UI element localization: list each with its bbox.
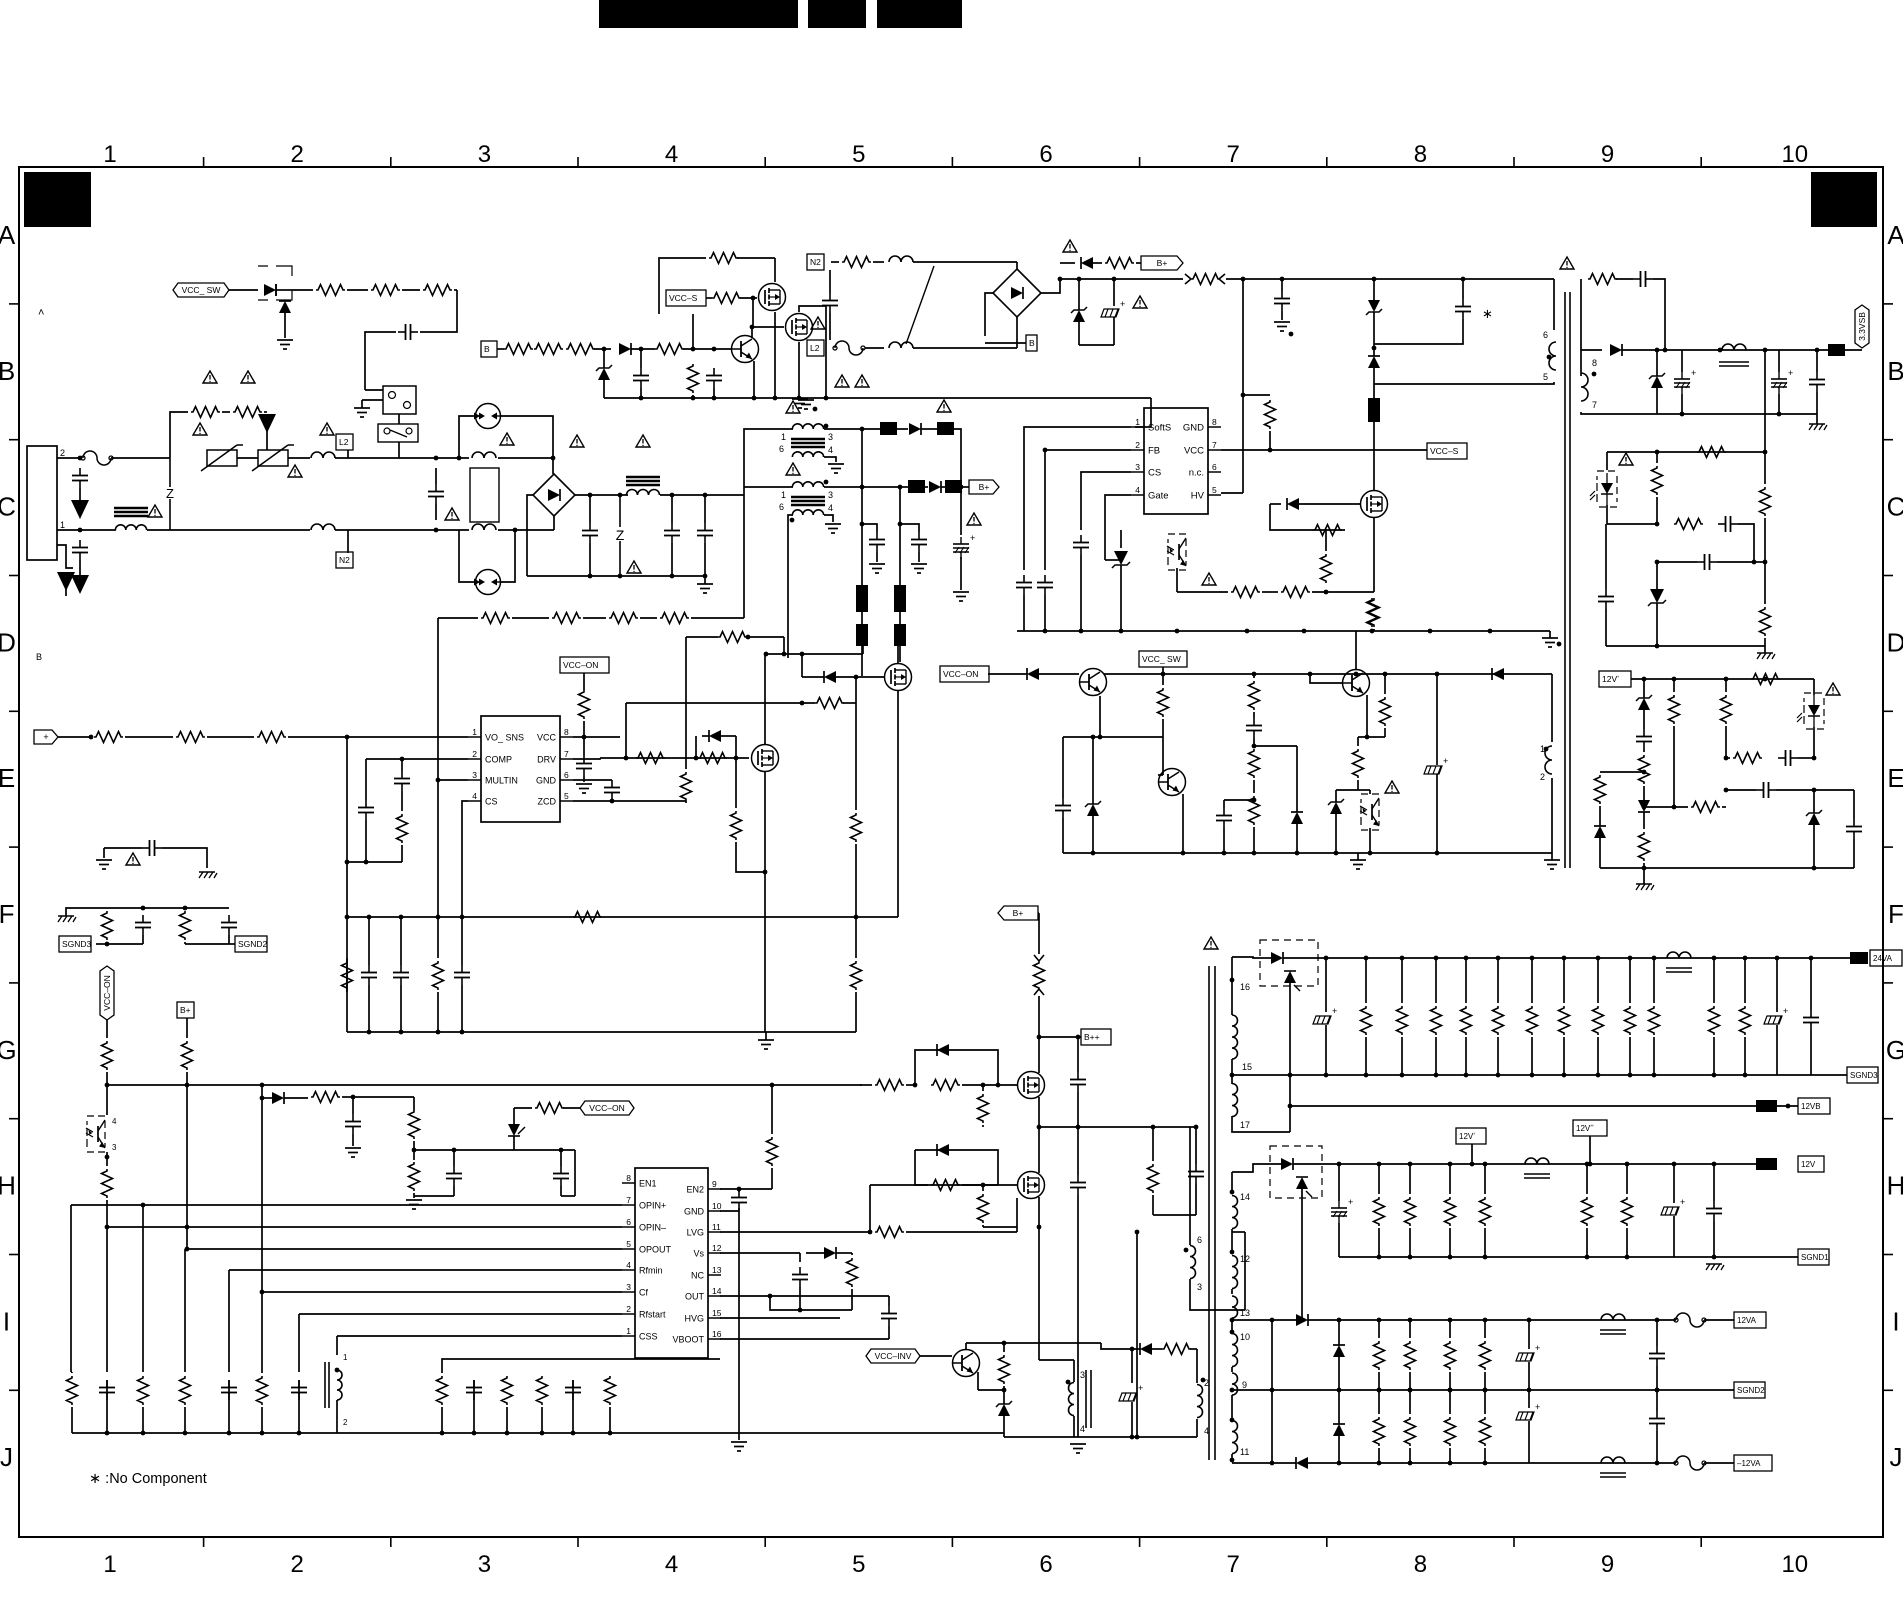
- winding lead: [1231, 1059, 1233, 1075]
- junction: [1241, 277, 1246, 282]
- wire: [799, 1287, 801, 1310]
- wire: [553, 516, 555, 530]
- svg-text:VO_ SNS: VO_ SNS: [485, 733, 524, 743]
- wire: [1373, 312, 1375, 356]
- junction: [399, 1030, 404, 1035]
- photocoupler LED: [1804, 693, 1824, 729]
- resistor: [176, 732, 205, 743]
- wire: [1401, 958, 1403, 1003]
- capacitor: [1073, 542, 1089, 544]
- svg-text:N2: N2: [339, 555, 350, 565]
- wire: [454, 289, 457, 291]
- wire: [1321, 1163, 1756, 1165]
- wire: [985, 342, 1026, 344]
- svg-text:A: A: [1887, 220, 1903, 250]
- junction: [790, 518, 795, 523]
- svg-text:1: 1: [103, 141, 116, 168]
- junction: [1642, 805, 1647, 810]
- junction: [1408, 1388, 1413, 1393]
- diode: [1333, 1424, 1345, 1436]
- junction: [460, 915, 465, 920]
- junction: [351, 1095, 356, 1100]
- svg-text:OPIN+: OPIN+: [639, 1201, 666, 1211]
- wire: [186, 1072, 188, 1249]
- redacted bar 3: [877, 0, 962, 28]
- svg-text:B: B: [36, 652, 42, 662]
- wire: [1162, 719, 1164, 737]
- wire: [1484, 1372, 1486, 1390]
- ferrite bead: [908, 480, 925, 493]
- wire: [1656, 1390, 1658, 1411]
- net label VCC-ON: [560, 657, 609, 673]
- wire: [1092, 737, 1094, 804]
- resistor: [847, 1258, 858, 1287]
- capacitor: [792, 1274, 808, 1276]
- wire: [1471, 1144, 1473, 1164]
- wire: [1308, 1462, 1676, 1464]
- capacitor: [1274, 298, 1290, 300]
- winding 9: [1232, 1373, 1238, 1395]
- resistor: [655, 344, 684, 355]
- ferrite bead: [856, 624, 868, 646]
- resistor: [1740, 1006, 1751, 1035]
- wire: [1003, 1386, 1005, 1390]
- wire: [862, 646, 864, 654]
- inductor: [889, 342, 913, 348]
- wire: [1190, 1279, 1245, 1310]
- wire: [865, 347, 884, 349]
- wire: [1713, 1037, 1715, 1075]
- wire: [498, 457, 553, 459]
- svg-text:8: 8: [1212, 417, 1217, 427]
- wire: [1162, 674, 1164, 685]
- svg-text:1: 1: [343, 1353, 348, 1362]
- wire: [1653, 958, 1655, 1003]
- wire: [941, 486, 945, 488]
- resistor: [1559, 1006, 1570, 1035]
- connector shield lead: [57, 545, 73, 568]
- wire: [824, 428, 862, 430]
- resistor: [182, 1041, 193, 1070]
- fuse: [835, 341, 863, 355]
- capacitor: [1216, 815, 1232, 817]
- MOSFET Q (main switch): [1361, 491, 1388, 518]
- wire: [1041, 279, 1060, 293]
- junction: [1434, 1073, 1439, 1078]
- polarized capacitor: [1764, 1016, 1782, 1024]
- junction: [1230, 978, 1235, 983]
- wire: [1656, 603, 1658, 646]
- diode: [937, 1044, 949, 1056]
- wire: [400, 985, 402, 1032]
- wire: [1373, 518, 1375, 592]
- wire: [1581, 412, 1657, 414]
- svg-text:2: 2: [291, 1551, 304, 1578]
- junction: [618, 574, 623, 579]
- wire: [365, 820, 367, 862]
- wire: [589, 495, 591, 523]
- junction: [1812, 866, 1817, 871]
- diode/SCR pair (12V): [1270, 1146, 1322, 1198]
- wire: [855, 917, 857, 958]
- resistor: [1691, 802, 1720, 813]
- svg-text:10: 10: [1781, 141, 1808, 168]
- wire: [1310, 529, 1345, 531]
- polarized capacitor: [1771, 378, 1787, 380]
- svg-text:I: I: [1892, 1306, 1899, 1336]
- wire: [147, 529, 310, 531]
- diode: [824, 1247, 836, 1259]
- wire: [1643, 863, 1645, 868]
- wire: [737, 257, 775, 259]
- junction: [78, 456, 83, 461]
- junction: [436, 915, 441, 920]
- wire: [1135, 398, 1151, 427]
- wire: [401, 759, 403, 771]
- capacitor: [1846, 826, 1862, 828]
- wire: [1081, 472, 1131, 530]
- thyristor: [508, 1124, 520, 1136]
- net label B+: [1141, 256, 1183, 270]
- wire: [1289, 983, 1291, 1132]
- wire: [1373, 422, 1375, 490]
- resistor: [1361, 1006, 1372, 1035]
- wire: [1152, 1348, 1162, 1350]
- wire: [686, 636, 718, 638]
- svg-text:3: 3: [828, 432, 833, 442]
- diode: [1296, 1314, 1308, 1326]
- capacitor: [405, 324, 407, 340]
- wire: [1073, 1416, 1075, 1437]
- svg-text:HV: HV: [1191, 491, 1205, 502]
- wire: [237, 457, 258, 459]
- svg-text:11: 11: [1240, 1447, 1249, 1457]
- zener diode: [1330, 802, 1342, 814]
- wire: [1622, 349, 1657, 351]
- junction: [1091, 851, 1096, 856]
- junction: [297, 1431, 302, 1436]
- wire: [441, 1372, 443, 1374]
- wire: [58, 736, 91, 738]
- photocoupler LED: [1597, 471, 1617, 507]
- wire: [292, 289, 313, 291]
- resistor: [688, 364, 699, 393]
- svg-text:B+: B+: [979, 482, 990, 492]
- wire: [497, 348, 504, 350]
- wire: [435, 468, 437, 484]
- wire: [342, 1096, 353, 1098]
- junction: [800, 652, 805, 657]
- junction: [1483, 1388, 1488, 1393]
- wire: [1810, 958, 1812, 1010]
- polarized capacitor: [1101, 309, 1119, 317]
- junction: [1642, 770, 1647, 775]
- resistor: [1249, 796, 1260, 825]
- ground: [1070, 1443, 1086, 1445]
- wire: [691, 617, 744, 619]
- MOSFET Q (sync): [885, 664, 912, 691]
- svg-text:+: +: [43, 732, 48, 742]
- junction: [1175, 629, 1180, 634]
- photocoupler: [1168, 534, 1186, 570]
- wire: [704, 543, 706, 576]
- wire: [1176, 568, 1178, 592]
- redacted corner block left: [24, 172, 91, 227]
- junction: [1530, 1073, 1535, 1078]
- junction: [1712, 1255, 1717, 1260]
- warning symbol: [1133, 296, 1147, 308]
- winding lead: [1232, 1116, 1290, 1132]
- svg-text:G: G: [0, 1035, 17, 1065]
- svg-text:SGND2: SGND2: [1737, 1386, 1765, 1395]
- capacitor: [664, 530, 680, 532]
- svg-text:3.3VSB: 3.3VSB: [1857, 312, 1867, 341]
- junction: [105, 1225, 110, 1230]
- resistor: [573, 912, 602, 923]
- junction: [996, 1083, 1001, 1088]
- wire: [222, 411, 230, 413]
- wire: [736, 842, 765, 872]
- wire: [1816, 414, 1818, 424]
- junction: [1230, 1250, 1235, 1255]
- wire: [869, 1185, 871, 1232]
- wire: [1221, 492, 1243, 494]
- svg-text:+: +: [1783, 1006, 1788, 1016]
- zener diode: [1808, 813, 1820, 825]
- wire: [1384, 728, 1386, 737]
- thyristor: [1284, 971, 1296, 983]
- wire: [1378, 1448, 1380, 1463]
- svg-text:3: 3: [1135, 462, 1140, 472]
- wire: [414, 1195, 454, 1197]
- resistor: [94, 732, 123, 743]
- resistor: [609, 613, 638, 624]
- wire: [185, 1248, 622, 1250]
- wire: [1738, 524, 1754, 562]
- wire: [1754, 561, 1765, 563]
- wire: [915, 1150, 998, 1185]
- wire: [1232, 1164, 1262, 1172]
- wire: [229, 1269, 622, 1271]
- resistor: [978, 1194, 989, 1223]
- wire: [541, 1407, 543, 1433]
- wire: [207, 736, 254, 738]
- ground: [96, 859, 112, 861]
- svg-text:VCC–ON: VCC–ON: [943, 669, 978, 679]
- wire: [1357, 853, 1359, 860]
- junction: [1496, 1073, 1501, 1078]
- wire: [106, 1020, 108, 1038]
- svg-text:13: 13: [1240, 1308, 1250, 1318]
- wire: [860, 1084, 872, 1086]
- wire: [1093, 262, 1102, 264]
- junction: [540, 1431, 545, 1436]
- wire: [1616, 278, 1633, 280]
- junction: [1245, 629, 1250, 634]
- net label 12V'': [1573, 1120, 1607, 1136]
- wire: [1776, 789, 1814, 791]
- wire: [583, 617, 606, 619]
- wire: [836, 1252, 852, 1254]
- junction: [860, 427, 865, 432]
- svg-text:+: +: [1680, 1197, 1685, 1207]
- junction: [1230, 1330, 1235, 1335]
- wire: [1060, 278, 1183, 280]
- svg-text:1: 1: [781, 490, 786, 500]
- wire: [184, 942, 186, 944]
- svg-text:–12VA: –12VA: [1737, 1459, 1761, 1468]
- warning symbol: [570, 435, 584, 447]
- junction: [1585, 1255, 1590, 1260]
- redacted corner block right: [1811, 172, 1877, 227]
- junction: [1488, 629, 1493, 634]
- MOSFET Q (inverter high): [1018, 1072, 1045, 1099]
- capacitor: [1725, 516, 1727, 532]
- wire: [1436, 774, 1438, 853]
- junction: [1324, 1073, 1329, 1078]
- svg-text:5: 5: [1212, 485, 1217, 495]
- svg-text:SGND3: SGND3: [62, 939, 92, 949]
- diode: [1638, 800, 1650, 812]
- junction: [1743, 956, 1748, 961]
- svg-text:+: +: [1332, 1006, 1337, 1016]
- wire: [1597, 1037, 1599, 1075]
- junction: [1435, 851, 1440, 856]
- resistor: [1527, 1006, 1538, 1035]
- ground: [758, 1039, 774, 1041]
- wire: [965, 1343, 967, 1349]
- junction: [1194, 1125, 1199, 1130]
- wire: [1764, 638, 1766, 646]
- diode: [619, 343, 631, 355]
- wire: [574, 1150, 576, 1196]
- wire: [106, 1200, 108, 1227]
- junction: [1091, 735, 1096, 740]
- junction: [610, 799, 615, 804]
- svg-text:8: 8: [1414, 1551, 1427, 1578]
- wire: [1531, 958, 1533, 1003]
- wire: [1221, 449, 1427, 451]
- wire: [1726, 789, 1756, 791]
- warning symbol: [445, 508, 459, 520]
- junction: [1448, 1318, 1453, 1323]
- zener diode: [1073, 310, 1085, 322]
- wire: [1606, 645, 1765, 647]
- junction: [1130, 1347, 1135, 1352]
- diode: [1296, 1457, 1308, 1469]
- wire: [765, 653, 863, 655]
- net label +: [34, 730, 58, 744]
- junction: [1718, 348, 1723, 353]
- svg-text:Z: Z: [166, 486, 174, 501]
- wire: [1409, 1390, 1411, 1414]
- wire: [1814, 789, 1854, 791]
- wire: [988, 673, 1027, 675]
- wire: [1232, 1231, 1245, 1233]
- wire: [1549, 631, 1551, 638]
- wire: [365, 332, 396, 390]
- wire: [1401, 1037, 1403, 1075]
- wire: [336, 1336, 338, 1355]
- capacitor: [1649, 1418, 1665, 1420]
- wire: [1196, 1349, 1198, 1383]
- junction: [1079, 629, 1084, 634]
- ferrite bead: [894, 585, 906, 612]
- wire: [1436, 674, 1438, 765]
- junction: [1743, 1073, 1748, 1078]
- svg-text:3: 3: [478, 1551, 491, 1578]
- wire: [1016, 317, 1018, 348]
- resistor: [257, 732, 286, 743]
- wire: [66, 908, 107, 916]
- svg-text:B+: B+: [180, 1005, 191, 1015]
- svg-text:+: +: [1788, 368, 1793, 378]
- diode: [1594, 826, 1606, 838]
- capacitor: [149, 840, 151, 856]
- junction: [367, 915, 372, 920]
- capacitor: [822, 300, 838, 302]
- junction: [1655, 1388, 1660, 1393]
- body diode: [279, 301, 291, 313]
- diode: [1368, 356, 1380, 368]
- wire: [1378, 1164, 1380, 1194]
- output pad 24VA: [1850, 952, 1868, 964]
- wire: [631, 348, 655, 350]
- relay contact: [378, 424, 418, 442]
- wire: [1484, 1390, 1486, 1414]
- resistor: [1281, 587, 1310, 598]
- wire: [1704, 1319, 1734, 1321]
- wire: [1643, 679, 1645, 698]
- resistor: [1265, 400, 1276, 429]
- wire: [765, 1031, 856, 1033]
- svg-text:+: +: [970, 533, 975, 543]
- junction: [1130, 1435, 1135, 1440]
- svg-text:7: 7: [1227, 141, 1240, 168]
- wire: [1281, 279, 1283, 291]
- junction: [1655, 522, 1660, 527]
- resistor: [1697, 447, 1726, 458]
- junction: [1280, 277, 1285, 282]
- resistor: [731, 811, 742, 840]
- net label SGND2: [1734, 1382, 1765, 1398]
- resistor: [138, 1376, 149, 1405]
- resistor: [1751, 674, 1780, 685]
- svg-text:12Vʼ: 12Vʼ: [1459, 1132, 1475, 1141]
- warning symbol: [320, 423, 334, 435]
- fuse: [1676, 1456, 1704, 1470]
- wire: [1656, 1366, 1658, 1390]
- wire: [1190, 1348, 1197, 1350]
- diode: [1291, 812, 1303, 824]
- wire: [104, 847, 142, 849]
- wire: [671, 543, 673, 576]
- wire: [1105, 495, 1131, 560]
- wire: [960, 557, 962, 590]
- wire: [1725, 679, 1727, 692]
- junction: [898, 522, 903, 527]
- wire: [347, 861, 402, 863]
- ground: [345, 1147, 361, 1149]
- wire: [685, 637, 687, 769]
- resistor: [1595, 775, 1606, 804]
- wire: [876, 552, 878, 562]
- wire: [1378, 1390, 1380, 1414]
- svg-text:6: 6: [626, 1217, 631, 1227]
- wire: [897, 646, 899, 663]
- junction: [1372, 346, 1377, 351]
- junction: [1383, 672, 1388, 677]
